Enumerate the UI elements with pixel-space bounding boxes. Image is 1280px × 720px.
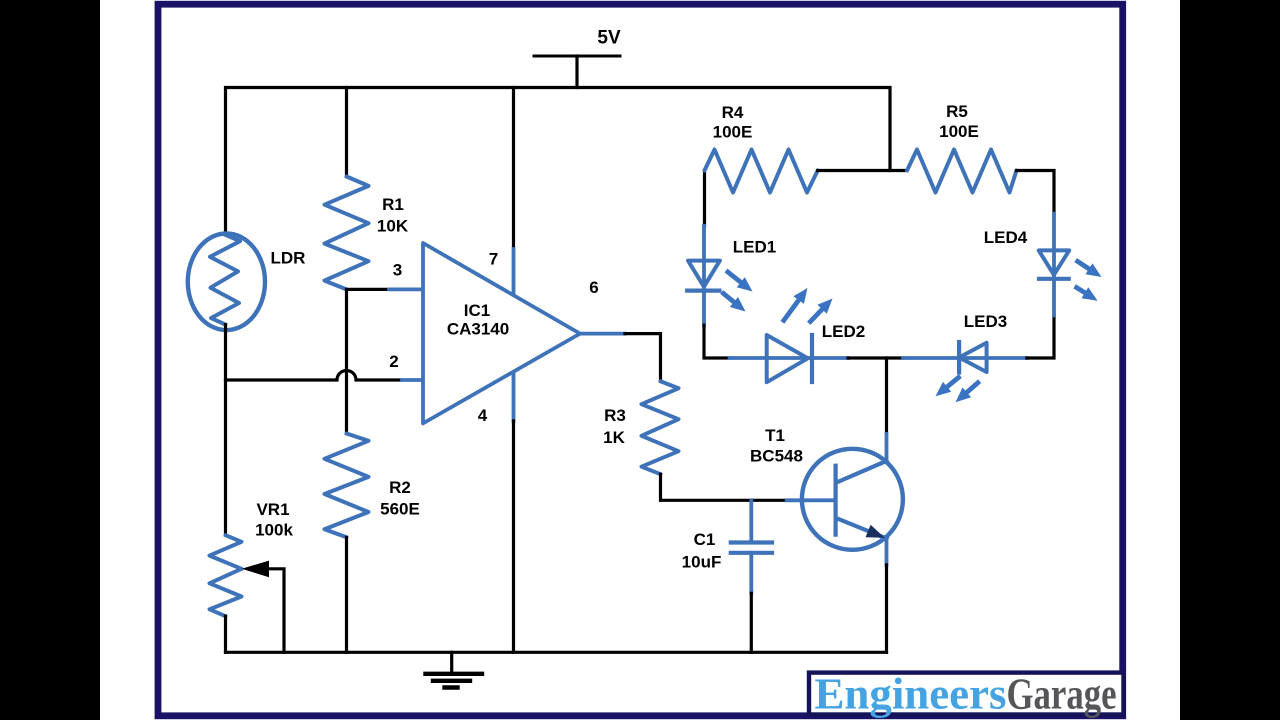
- pin 2 stub: [402, 378, 424, 382]
- svg-text:10uF: 10uF: [682, 553, 722, 572]
- wire: between R4 and R5 (junction with rail drop): [818, 169, 907, 172]
- label C1 10uF: [682, 530, 722, 572]
- svg-text:IC1: IC1: [464, 301, 490, 320]
- LED1 wire (blue, through symbol): [702, 226, 706, 325]
- wire: R2 bottom to ground rail: [345, 537, 348, 652]
- svg-text:3: 3: [393, 261, 402, 280]
- LED3 wire (blue, through symbol): [903, 356, 1027, 360]
- svg-text:560E: 560E: [380, 500, 420, 519]
- EngineersGarage logo: [809, 670, 1124, 719]
- svg-text:2: 2: [389, 352, 398, 371]
- wire: emitter blue part: [885, 539, 889, 566]
- label R4 100E: [713, 103, 753, 142]
- wire: R5 right to LED4 top corner: [1017, 171, 1055, 214]
- label R5 100E: [939, 102, 979, 141]
- pin 7 stub: [512, 249, 516, 297]
- svg-text:7: 7: [489, 250, 498, 269]
- LED2 emission arrows: [784, 288, 833, 322]
- label T1 BC548: [750, 426, 803, 466]
- svg-text:Garage: Garage: [1007, 670, 1117, 719]
- svg-text:BC548: BC548: [750, 447, 803, 466]
- svg-text:Engineers: Engineers: [815, 670, 1007, 719]
- LED4 wire (blue, through symbol): [1052, 214, 1056, 316]
- svg-text:LED4: LED4: [984, 228, 1028, 247]
- LED1 emission arrows: [724, 272, 753, 312]
- svg-text:4: 4: [478, 406, 488, 425]
- pin 3 stub: [389, 287, 424, 291]
- svg-text:LED2: LED2: [822, 322, 865, 341]
- wire: pin2 branch with hop over R1-R2 wire: [226, 371, 403, 381]
- wire: R4 left black connectors: [703, 171, 706, 226]
- svg-text:100E: 100E: [939, 122, 979, 141]
- LED3 emission arrows: [936, 378, 978, 403]
- wire: base stub blue: [787, 498, 836, 502]
- resistor R2: [325, 434, 369, 538]
- potentiometer VR1: [210, 535, 242, 616]
- svg-text:10K: 10K: [377, 217, 409, 236]
- svg-text:LDR: LDR: [271, 249, 306, 268]
- LED3: [959, 342, 987, 373]
- LDR photoresistor: [188, 233, 265, 330]
- svg-text:R5: R5: [946, 102, 968, 121]
- pin 4 stub: [512, 374, 516, 421]
- svg-text:C1: C1: [694, 530, 716, 549]
- svg-text:100k: 100k: [255, 521, 293, 540]
- wire: pin4 to ground rail (black part): [512, 421, 515, 652]
- wire: pin7 from rail (black part): [512, 88, 515, 250]
- wire: LED1 bottom corner to LED2 (black part): [704, 325, 730, 358]
- wire: output to R3 top: [625, 334, 661, 382]
- svg-text:100E: 100E: [713, 123, 753, 142]
- svg-text:6: 6: [589, 278, 598, 297]
- svg-text:CA3140: CA3140: [447, 320, 509, 339]
- wire: LED3 right corner up to LED4 (black part): [1027, 315, 1054, 358]
- svg-text:5V: 5V: [597, 28, 621, 49]
- resistor R5: [907, 150, 1017, 193]
- wire: ground rail: [226, 651, 887, 654]
- LED2: [767, 335, 812, 382]
- svg-text:R4: R4: [722, 103, 744, 122]
- wire: collector blue part: [885, 434, 889, 461]
- pin 6 output stub: [580, 332, 625, 336]
- transistor Q1 BC548: [802, 449, 903, 550]
- svg-text:VR1: VR1: [256, 500, 289, 519]
- resistor R1: [325, 177, 369, 290]
- wire: R1 bottom junction to pin3 and down to R2: [347, 289, 390, 433]
- label VR1 100k: [255, 500, 293, 540]
- wire: VR1 bottom to ground rail: [224, 616, 227, 652]
- wire: LED2 right to LED3 (black part, junction to collector): [848, 356, 903, 359]
- wire: LDR bottom down to VR1 (junction with pin2 branch): [224, 325, 227, 536]
- label R2 560E: [380, 478, 420, 519]
- svg-text:R3: R3: [604, 406, 626, 425]
- wire: collector up to LED rail (black part): [885, 358, 888, 434]
- wire: R1 top from rail: [345, 88, 348, 177]
- svg-text:LED1: LED1: [733, 238, 776, 257]
- op-amp U1 CA3140: [423, 243, 580, 423]
- label R3 1K: [603, 406, 626, 447]
- svg-text:R2: R2: [389, 478, 411, 497]
- LED4: [1039, 250, 1070, 278]
- svg-text:LED3: LED3: [964, 312, 1007, 331]
- ground symbol: [426, 652, 483, 687]
- capacitor C1: [731, 500, 772, 593]
- label IC1 CA3140: [447, 301, 509, 339]
- label R1 10K: [377, 195, 409, 236]
- wire: emitter to ground rail (black part): [885, 565, 888, 652]
- LED4 emission arrows: [1077, 261, 1102, 300]
- svg-text:1K: 1K: [603, 428, 625, 447]
- svg-text:T1: T1: [765, 426, 785, 445]
- power 5V symbol: [534, 56, 620, 88]
- VR1 wiper arrow: [242, 561, 284, 653]
- resistor R4: [705, 150, 818, 193]
- wire: 5V top rail with left drop to LDR and right drop to R4/R5: [226, 88, 891, 235]
- svg-text:R1: R1: [382, 195, 404, 214]
- wire: C1 bottom to ground rail: [750, 593, 753, 652]
- wire: R3 bottom to transistor base (black part): [661, 474, 787, 500]
- resistor R3: [642, 381, 679, 474]
- LED2 wire (blue, through symbol): [730, 356, 848, 360]
- LED1: [687, 261, 720, 291]
